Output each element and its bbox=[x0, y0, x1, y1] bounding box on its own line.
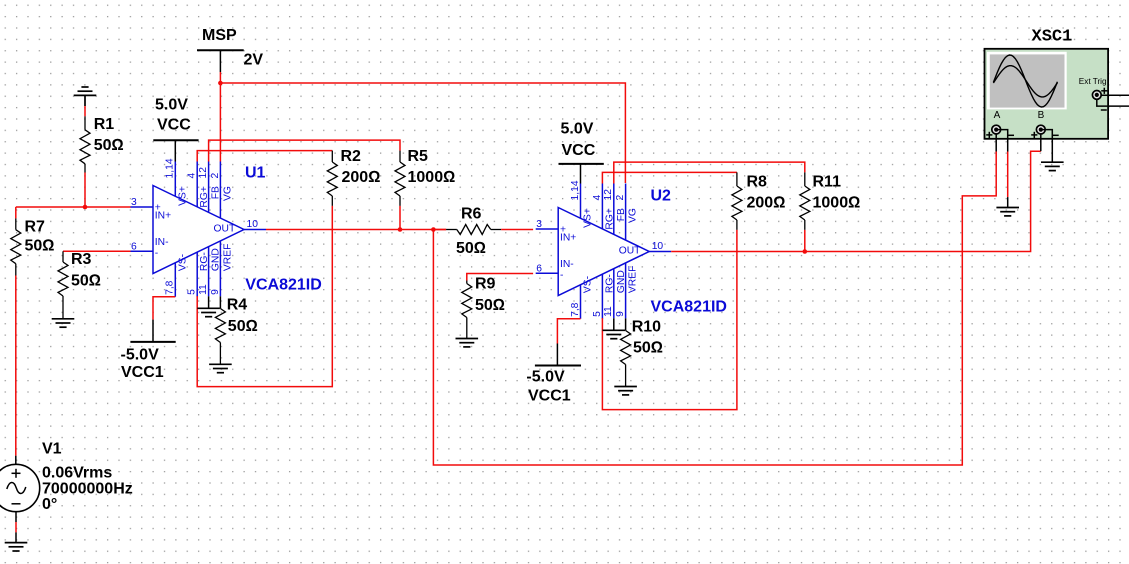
wire U2 FB to R11 bbox=[614, 162, 805, 183]
svg-text:OUT: OUT bbox=[619, 246, 641, 257]
wire R2 to U1 RG- (gain loop) bbox=[197, 206, 332, 387]
resistor R4 50ohm bbox=[215, 297, 257, 365]
svg-text:U1: U1 bbox=[245, 165, 266, 182]
svg-text:200Ω: 200Ω bbox=[342, 169, 381, 186]
wire U2 OUT to scope channel B bbox=[671, 151, 1041, 251]
svg-text:VG: VG bbox=[222, 186, 233, 201]
resistor R8 200ohm bbox=[732, 172, 786, 230]
svg-text:VREF: VREF bbox=[628, 266, 639, 293]
svg-text:0°: 0° bbox=[42, 496, 57, 513]
svg-text:50Ω: 50Ω bbox=[475, 297, 505, 314]
svg-text:XSC1: XSC1 bbox=[1032, 28, 1073, 47]
svg-text:9: 9 bbox=[615, 311, 626, 317]
svg-text:2: 2 bbox=[615, 195, 626, 201]
svg-text:IN-: IN- bbox=[560, 259, 574, 270]
svg-text:IN-: IN- bbox=[155, 237, 169, 248]
svg-text:5: 5 bbox=[592, 311, 603, 317]
svg-text:R3: R3 bbox=[71, 251, 92, 268]
ground (below R9) bbox=[456, 339, 479, 347]
wire U1 pin6 net bbox=[63, 250, 131, 252]
svg-text:200Ω: 200Ω bbox=[747, 195, 786, 212]
svg-text:5.0V: 5.0V bbox=[561, 121, 594, 138]
svg-text:4: 4 bbox=[187, 173, 198, 179]
AC source V1 0.06Vrms 70MHz bbox=[0, 441, 133, 522]
svg-text:6: 6 bbox=[536, 263, 542, 274]
svg-text:12: 12 bbox=[603, 189, 614, 201]
svg-text:4: 4 bbox=[592, 195, 603, 201]
svg-text:VS+: VS+ bbox=[177, 186, 188, 206]
resistor R1 50ohm bbox=[80, 116, 124, 173]
ground (below R3) bbox=[52, 319, 75, 327]
svg-text:GND: GND bbox=[211, 248, 222, 271]
svg-text:IN+: IN+ bbox=[560, 233, 576, 244]
svg-text:6: 6 bbox=[131, 241, 137, 252]
svg-text:VCC: VCC bbox=[157, 116, 191, 133]
svg-text:VS+: VS+ bbox=[583, 208, 594, 228]
wire R1 to node A bbox=[84, 173, 86, 208]
op-amp U2 VCA821ID bbox=[536, 180, 727, 330]
wire scope B+ stub bbox=[1040, 134, 1042, 151]
svg-text:50Ω: 50Ω bbox=[633, 340, 663, 357]
svg-text:VCC1: VCC1 bbox=[528, 388, 571, 405]
power VCC 5.0V (U2) bbox=[559, 121, 604, 184]
svg-text:OUT: OUT bbox=[214, 224, 236, 235]
svg-text:FB: FB bbox=[616, 208, 627, 221]
wire R8 to U2 RG- (gain loop) bbox=[602, 230, 737, 410]
svg-text:R10: R10 bbox=[632, 319, 661, 336]
svg-text:3: 3 bbox=[131, 197, 137, 208]
resistor R10 50ohm bbox=[621, 319, 663, 387]
svg-text:0.06Vrms: 0.06Vrms bbox=[42, 465, 112, 482]
svg-text:R2: R2 bbox=[341, 148, 362, 165]
resistor R11 1000ohm bbox=[800, 172, 861, 230]
svg-text:RG-: RG- bbox=[199, 252, 210, 271]
svg-text:50Ω: 50Ω bbox=[228, 318, 258, 335]
svg-text:-5.0V: -5.0V bbox=[121, 346, 160, 363]
svg-text:10: 10 bbox=[247, 219, 259, 230]
resistor R5 1000ohm bbox=[395, 148, 455, 206]
svg-text:U2: U2 bbox=[651, 188, 672, 205]
svg-text:5: 5 bbox=[187, 289, 198, 295]
svg-text:VCA821ID: VCA821ID bbox=[245, 277, 321, 294]
svg-text:FB: FB bbox=[211, 186, 222, 199]
svg-text:R5: R5 bbox=[408, 148, 429, 165]
wire R5 to OUT net bbox=[399, 206, 401, 230]
svg-text:12: 12 bbox=[198, 167, 209, 179]
wire MSP to VG pins of U1 and U2 bbox=[220, 72, 625, 183]
svg-text:11: 11 bbox=[603, 306, 614, 317]
wire R7 to V1 bbox=[15, 276, 17, 456]
power supply MSP 2V bbox=[197, 27, 263, 72]
svg-text:R11: R11 bbox=[813, 174, 842, 191]
svg-text:1000Ω: 1000Ω bbox=[813, 195, 861, 212]
resistor R2 200ohm bbox=[327, 148, 380, 206]
wire scope A+ stub bbox=[995, 134, 997, 152]
svg-text:1000Ω: 1000Ω bbox=[408, 169, 456, 186]
svg-text:VCA821ID: VCA821ID bbox=[651, 299, 727, 316]
wire U2 pin6 net bbox=[467, 274, 533, 281]
power VCC1 -5.0V (U2) bbox=[526, 319, 581, 405]
svg-text:1,14: 1,14 bbox=[570, 180, 581, 200]
wire R11 to U2 OUT net bbox=[804, 230, 806, 252]
svg-text:RG+: RG+ bbox=[199, 186, 210, 207]
ground (U1 GND pin 11) bbox=[197, 308, 220, 316]
ground (above R1) bbox=[74, 87, 97, 106]
svg-text:R9: R9 bbox=[475, 276, 496, 293]
svg-text:R4: R4 bbox=[227, 297, 248, 314]
svg-text:VS-: VS- bbox=[177, 254, 188, 271]
power VCC 5.0V (U1) bbox=[153, 96, 198, 161]
power VCC1 -5.0V (U1) bbox=[121, 297, 176, 381]
resistor R7 50ohm bbox=[11, 207, 55, 276]
svg-text:5.0V: 5.0V bbox=[155, 96, 188, 113]
junction MSP node bbox=[218, 81, 223, 86]
svg-text:50Ω: 50Ω bbox=[94, 137, 124, 154]
wire node A to U1 pin3 and R7 bbox=[16, 206, 131, 208]
svg-text:A: A bbox=[994, 110, 1001, 121]
svg-text:VG: VG bbox=[628, 208, 639, 223]
svg-text:2: 2 bbox=[210, 173, 221, 179]
ground (below R10) bbox=[614, 387, 637, 395]
svg-text:10: 10 bbox=[652, 241, 664, 252]
svg-text:-5.0V: -5.0V bbox=[526, 369, 565, 386]
svg-text:9: 9 bbox=[210, 289, 221, 295]
resistor R9 50ohm bbox=[462, 276, 505, 339]
ground (below V1) bbox=[5, 543, 28, 551]
wire scope B- to ground bbox=[1041, 130, 1053, 163]
svg-text:B: B bbox=[1038, 110, 1045, 121]
wire U2 RG+ to R8 bbox=[602, 172, 737, 183]
svg-text:GND: GND bbox=[616, 270, 627, 293]
wire R6 to U2 pin3 bbox=[501, 229, 533, 231]
svg-text:R6: R6 bbox=[461, 206, 482, 223]
ground (below R4) bbox=[209, 364, 232, 372]
svg-text:RG+: RG+ bbox=[604, 208, 615, 229]
svg-text:11: 11 bbox=[198, 284, 209, 295]
oscilloscope XSC1 bbox=[985, 28, 1109, 139]
svg-text:Ext Trig: Ext Trig bbox=[1079, 77, 1107, 86]
svg-text:50Ω: 50Ω bbox=[25, 238, 55, 255]
wire U1 FB to R5 bbox=[209, 140, 400, 161]
svg-text:RG-: RG- bbox=[604, 274, 615, 293]
svg-text:-: - bbox=[560, 270, 563, 281]
svg-text:-: - bbox=[155, 248, 158, 259]
svg-text:7,8: 7,8 bbox=[570, 302, 581, 317]
svg-text:MSP: MSP bbox=[202, 27, 237, 44]
junction OUT/feedback tap bbox=[431, 227, 436, 232]
wire scope Ext Trig terminals bbox=[1097, 95, 1129, 106]
svg-text:3: 3 bbox=[536, 219, 542, 230]
svg-text:IN+: IN+ bbox=[155, 211, 171, 222]
resistor R6 50ohm bbox=[433, 206, 501, 258]
op-amp U1 VCA821ID bbox=[131, 158, 322, 308]
wire V1 to ground bbox=[15, 522, 17, 543]
svg-text:R1: R1 bbox=[94, 116, 115, 133]
junction R5/OUT bbox=[398, 227, 403, 232]
resistor R3 50ohm bbox=[58, 251, 101, 319]
wire ground to R1 bbox=[84, 106, 86, 116]
wire feedback tap to scope channel A bbox=[433, 152, 996, 466]
svg-text:50Ω: 50Ω bbox=[456, 240, 486, 257]
ground (scope B-) bbox=[1041, 162, 1064, 170]
junction node A bbox=[83, 205, 88, 210]
svg-text:R7: R7 bbox=[25, 219, 46, 236]
svg-text:VS-: VS- bbox=[583, 276, 594, 293]
junction R11/OUT bbox=[803, 249, 808, 254]
wire U1 RG+ to R2 bbox=[197, 151, 332, 162]
svg-text:50Ω: 50Ω bbox=[71, 273, 101, 290]
wire U1 OUT net bbox=[266, 229, 446, 231]
ground (U2 GND pin 11) bbox=[603, 330, 626, 338]
svg-text:2V: 2V bbox=[244, 51, 264, 68]
ground (scope A-) bbox=[996, 208, 1019, 216]
wire scope A- to ground bbox=[996, 130, 1008, 208]
svg-text:1,14: 1,14 bbox=[165, 158, 176, 178]
svg-text:VCC1: VCC1 bbox=[121, 364, 164, 381]
svg-text:VCC: VCC bbox=[562, 142, 596, 159]
svg-text:V1: V1 bbox=[42, 441, 62, 458]
svg-text:7,8: 7,8 bbox=[165, 280, 176, 295]
svg-text:R8: R8 bbox=[747, 174, 768, 191]
svg-text:VREF: VREF bbox=[222, 244, 233, 271]
svg-text:70000000Hz: 70000000Hz bbox=[42, 480, 133, 497]
